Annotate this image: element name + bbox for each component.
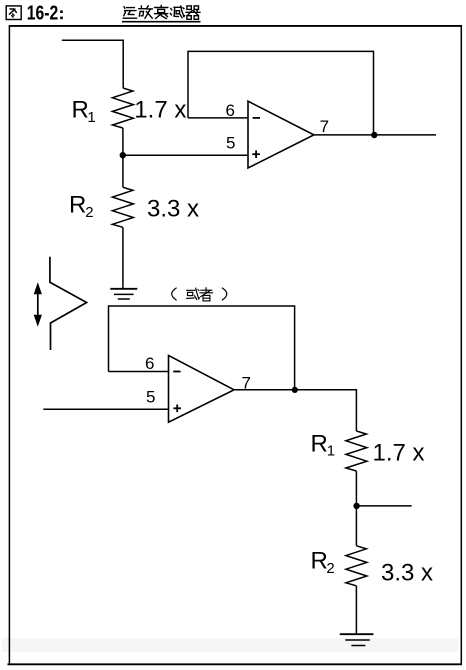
svg-text:1.7 x: 1.7 x — [134, 97, 186, 124]
svg-text:1: 1 — [87, 109, 95, 126]
svg-text:7: 7 — [242, 374, 251, 393]
svg-text:5: 5 — [146, 388, 155, 407]
svg-text:2: 2 — [326, 560, 334, 577]
svg-text:R: R — [72, 97, 89, 124]
svg-text:R: R — [311, 548, 328, 575]
svg-text:R: R — [69, 192, 86, 219]
svg-text:1.7 x: 1.7 x — [373, 439, 425, 466]
svg-text:1: 1 — [327, 443, 335, 460]
svg-text:3.3 x: 3.3 x — [147, 196, 199, 223]
svg-text:6: 6 — [226, 101, 235, 120]
svg-text:7: 7 — [320, 117, 329, 136]
svg-text:3.3 x: 3.3 x — [381, 560, 433, 587]
svg-text:6: 6 — [145, 354, 154, 373]
svg-text:R: R — [311, 431, 328, 458]
svg-text:2: 2 — [85, 204, 93, 221]
svg-text:5: 5 — [226, 133, 235, 152]
svg-text:16-2: 16-2 — [27, 3, 59, 25]
